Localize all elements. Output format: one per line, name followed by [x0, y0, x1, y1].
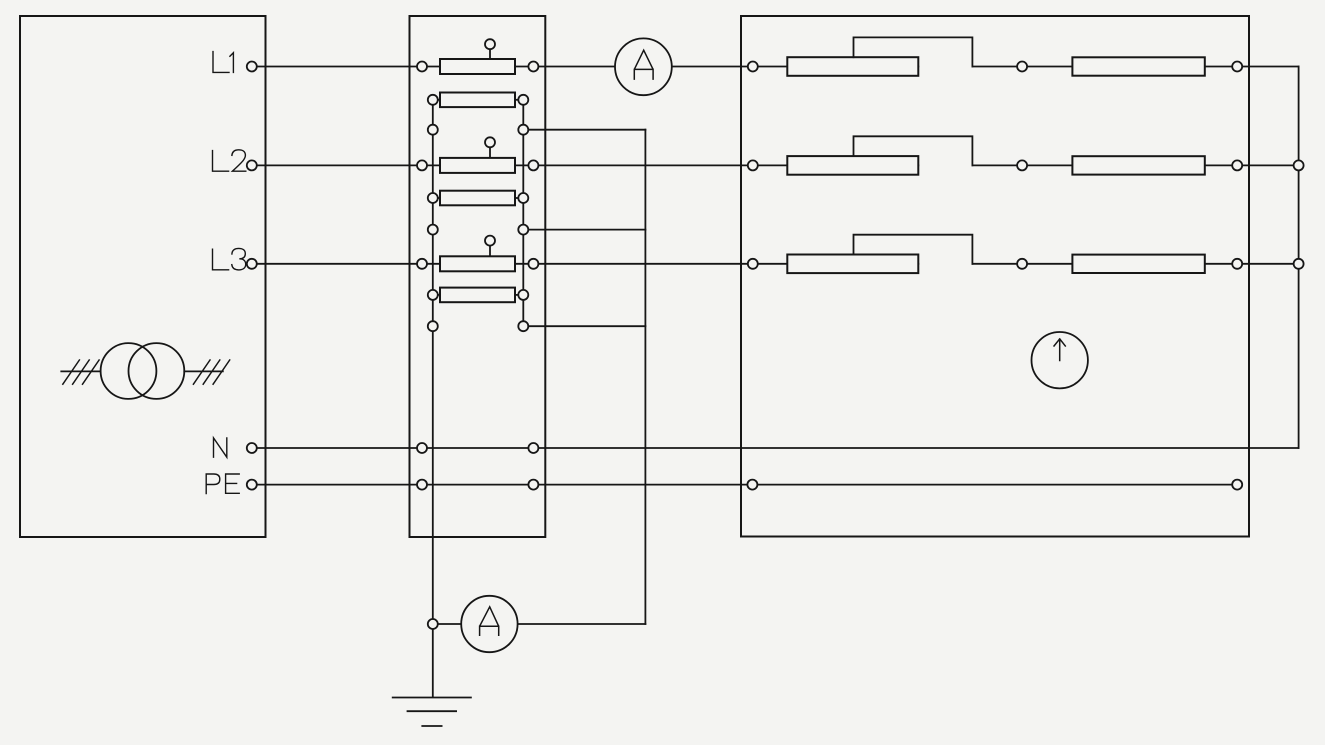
node ground junction [428, 619, 438, 629]
node fuse panel L3 in [417, 259, 427, 269]
node fuse panel N in [417, 443, 427, 453]
node fuse L2 tap [485, 137, 495, 147]
node fuse panel L1 out [528, 62, 538, 72]
fuse group L2 [417, 137, 538, 234]
node fuse L2 shunt right [518, 193, 528, 203]
node L2 collector right [518, 225, 528, 235]
wire L1 shunt collector [523, 129, 645, 131]
node L3 collector right [518, 321, 528, 331]
node fuse L1 tap [485, 39, 495, 49]
three-phase hatch marks left [63, 360, 99, 384]
fuse group L1 [417, 39, 538, 135]
node fuse L3 tap [485, 236, 495, 246]
node L1 supply terminal [247, 62, 257, 72]
fuse panel box [410, 16, 546, 537]
node fuse panel PE in [417, 480, 427, 490]
resistor L1 series [1072, 57, 1204, 75]
node load panel L2 out [1232, 160, 1242, 170]
wire fuse L2 tap stub [489, 147, 491, 158]
node PE supply terminal [247, 480, 257, 490]
load group L3 [748, 235, 1304, 273]
wire L3 tap jog [854, 235, 973, 264]
node L3 supply terminal [247, 259, 257, 269]
load panel box [741, 16, 1249, 537]
wire L1 tap jog [854, 37, 973, 66]
three-phase hatch marks right [193, 360, 229, 384]
node load panel L1 out [1232, 62, 1242, 72]
wire transformer left lead [61, 370, 100, 372]
node fuse panel L2 out [528, 160, 538, 170]
ammeter A2 [461, 596, 517, 652]
adjustable resistor L3 [787, 255, 918, 274]
fuse L2 shunt [440, 191, 515, 206]
label L1 [213, 52, 233, 73]
wire L3 output from tap to right bus [972, 263, 1298, 265]
resistor L2 series [1072, 156, 1204, 174]
wire L3 from supply through fuse panel to load panel [252, 263, 919, 265]
node L1 collector left [428, 125, 438, 135]
wire fuse L3 tap stub [489, 245, 491, 256]
wire PE from supply to load panel [252, 484, 1237, 486]
wire right measuring column [522, 100, 524, 326]
wire ammeter A2 link [433, 623, 646, 625]
wire L2 output from tap to right bus [972, 164, 1298, 166]
node fuse L3 shunt left [428, 290, 438, 300]
fuse L1 main [440, 59, 515, 74]
adjustable resistor L1 [787, 57, 918, 76]
node fuse panel L3 out [528, 259, 538, 269]
node load panel PE out [1232, 480, 1242, 490]
wire N from supply to right bus [252, 447, 1299, 449]
label L2 [213, 150, 246, 171]
wire transformer right lead [184, 370, 223, 372]
wire fuse L2 shunt links [433, 197, 440, 199]
node load panel PE in [747, 480, 757, 490]
supply cabinet box [20, 16, 266, 537]
adjustable resistor L2 [787, 156, 918, 175]
node load panel L1 in [748, 62, 758, 72]
node L3 collector left [428, 321, 438, 331]
node fuse L2 shunt left [428, 193, 438, 203]
wire fuse L3 shunt links [433, 294, 440, 296]
wire left measuring column [432, 100, 434, 697]
load group L2 [748, 136, 1304, 174]
load group L1 [748, 37, 1242, 75]
node L3 return junction [1294, 259, 1304, 269]
node load panel L3 in [748, 259, 758, 269]
resistor L3 series [1072, 255, 1204, 273]
fuse L3 main [440, 256, 515, 271]
ground [393, 698, 471, 727]
node fuse panel PE out [528, 480, 538, 490]
node L1 mid terminal [1017, 62, 1027, 72]
label N [214, 438, 227, 457]
wire L1 output from tap to right bus [972, 66, 1298, 68]
wire fuse L1 shunt links [433, 99, 440, 101]
node L2 collector left [428, 225, 438, 235]
wire right return bus vertical [1298, 67, 1300, 449]
node fuse panel N out [528, 443, 538, 453]
indicator meter [1032, 332, 1088, 388]
node fuse L3 shunt right [518, 290, 528, 300]
node L1 collector right [518, 125, 528, 135]
transformer primary winding [101, 343, 157, 399]
wire L2 from supply through fuse panel to load panel [252, 164, 919, 166]
label PE [206, 474, 239, 494]
fuse group L3 [417, 236, 538, 332]
transformer [61, 343, 229, 399]
wire L2 tap jog [854, 136, 973, 165]
node L2 return junction [1294, 160, 1304, 170]
fuse panel internal wiring [433, 100, 646, 697]
node fuse panel L2 in [417, 160, 427, 170]
node L2 supply terminal [247, 160, 257, 170]
node load panel L3 out [1232, 259, 1242, 269]
fuse L2 main [440, 158, 515, 173]
node fuse panel L1 in [417, 62, 427, 72]
node L2 mid terminal [1017, 160, 1027, 170]
node load panel L2 in [748, 160, 758, 170]
node N supply terminal [247, 443, 257, 453]
ammeter A1 [615, 38, 672, 95]
wire L1 from supply through fuse panel to load panel [252, 66, 919, 68]
node L3 mid terminal [1017, 259, 1027, 269]
node fuse L1 shunt left [428, 95, 438, 105]
wire fuse L1 tap stub [489, 49, 491, 59]
node fuse L1 shunt right [518, 95, 528, 105]
label L3 [213, 248, 246, 270]
fuse L3 shunt [440, 288, 515, 303]
wire L3 shunt collector [523, 325, 645, 327]
wire L2 shunt collector [523, 229, 645, 231]
wire collector bus vertical [644, 130, 646, 624]
fuse L1 shunt [440, 93, 515, 108]
transformer secondary winding [129, 343, 185, 399]
